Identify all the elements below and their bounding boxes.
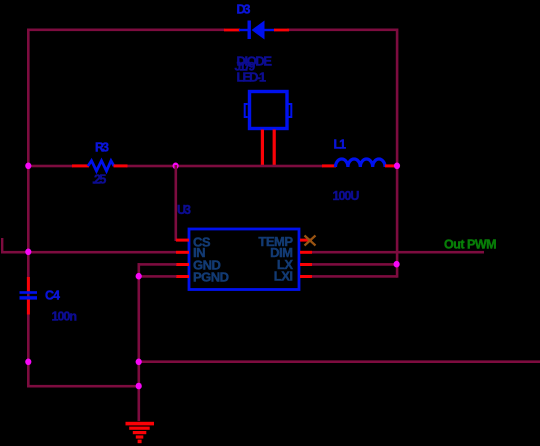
svg-text:D3: D3: [237, 3, 251, 17]
wire DIM horizontal to Out PWM: [312, 251, 484, 254]
wire LX horizontal: [312, 263, 397, 266]
wire LXI horizontal: [312, 275, 397, 278]
wire GND horizontal: [138, 263, 177, 266]
pin LX stub: [300, 263, 312, 266]
wire mid horizontal (resistor / LED / inductor net): [27, 165, 73, 168]
junction GND vertical / long horizontal: [136, 359, 142, 366]
pin IN stub: [176, 251, 189, 254]
svg-text:U3: U3: [177, 203, 191, 217]
diode D3: [224, 21, 289, 40]
svg-text:LXI: LXI: [274, 269, 293, 284]
wire bottom-left horizontal: [27, 385, 140, 388]
junction left rail / IN: [25, 249, 31, 256]
svg-text:C4: C4: [45, 289, 60, 303]
wire long bottom-right horizontal: [138, 360, 540, 363]
svg-text:R3: R3: [95, 141, 109, 155]
LED connector LED-1 body: [245, 92, 292, 129]
svg-text:100U: 100U: [333, 189, 360, 203]
junction GND / PGND: [136, 273, 142, 280]
svg-text:PGND: PGND: [193, 270, 229, 285]
pin CS stub: [176, 239, 189, 242]
svg-text:Out PWM: Out PWM: [444, 238, 496, 252]
junction left rail / mid net: [25, 163, 31, 170]
junction bottom corner: [136, 383, 142, 390]
wire LX-LXI vertical: [396, 263, 399, 278]
wire left vertical rail: [27, 29, 30, 388]
junction CS branch: [173, 163, 179, 170]
wire CS branch vertical: [175, 165, 178, 241]
wire GND vertical: [138, 263, 141, 421]
junction LX / right rail: [394, 261, 400, 268]
LED lead pin 1: [261, 130, 264, 167]
svg-text:100n: 100n: [52, 310, 77, 324]
pin GND stub: [176, 263, 189, 266]
IC U3 body: [189, 229, 299, 290]
resistor R3: [72, 161, 128, 171]
wire PGND horizontal: [138, 275, 177, 278]
wire IN hook at left edge: [1, 238, 3, 253]
svg-text:LED-1: LED-1: [237, 70, 266, 85]
wire mid horizontal between R3 and inductor: [126, 165, 323, 168]
svg-text:.25: .25: [92, 173, 106, 187]
pin LXI stub: [300, 275, 312, 278]
pin TEMP stub: [300, 239, 312, 242]
pin DIM stub: [300, 251, 312, 254]
capacitor C4: [20, 277, 38, 315]
junction inductor / right rail: [394, 163, 400, 170]
pin PGND stub: [176, 275, 189, 278]
wire top horizontal left segment: [27, 29, 225, 32]
wire right vertical rail: [396, 29, 399, 266]
wire top horizontal right segment: [287, 29, 398, 32]
no-connect marker on TEMP: [305, 236, 316, 246]
LED lead pin 2: [273, 130, 276, 167]
junction left rail lower (stray): [25, 359, 31, 366]
ground: [126, 422, 155, 443]
inductor L1: [322, 159, 396, 167]
wire IN horizontal: [1, 251, 176, 254]
